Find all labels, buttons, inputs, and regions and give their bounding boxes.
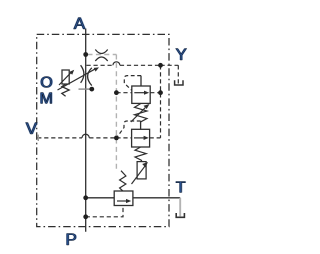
- svg-text:Y: Y: [176, 45, 187, 64]
- svg-text:T: T: [176, 179, 186, 196]
- svg-text:M: M: [40, 91, 53, 108]
- svg-text:O: O: [40, 75, 52, 92]
- svg-text:A: A: [74, 14, 86, 33]
- svg-text:P: P: [66, 230, 77, 249]
- svg-text:V: V: [26, 119, 38, 138]
